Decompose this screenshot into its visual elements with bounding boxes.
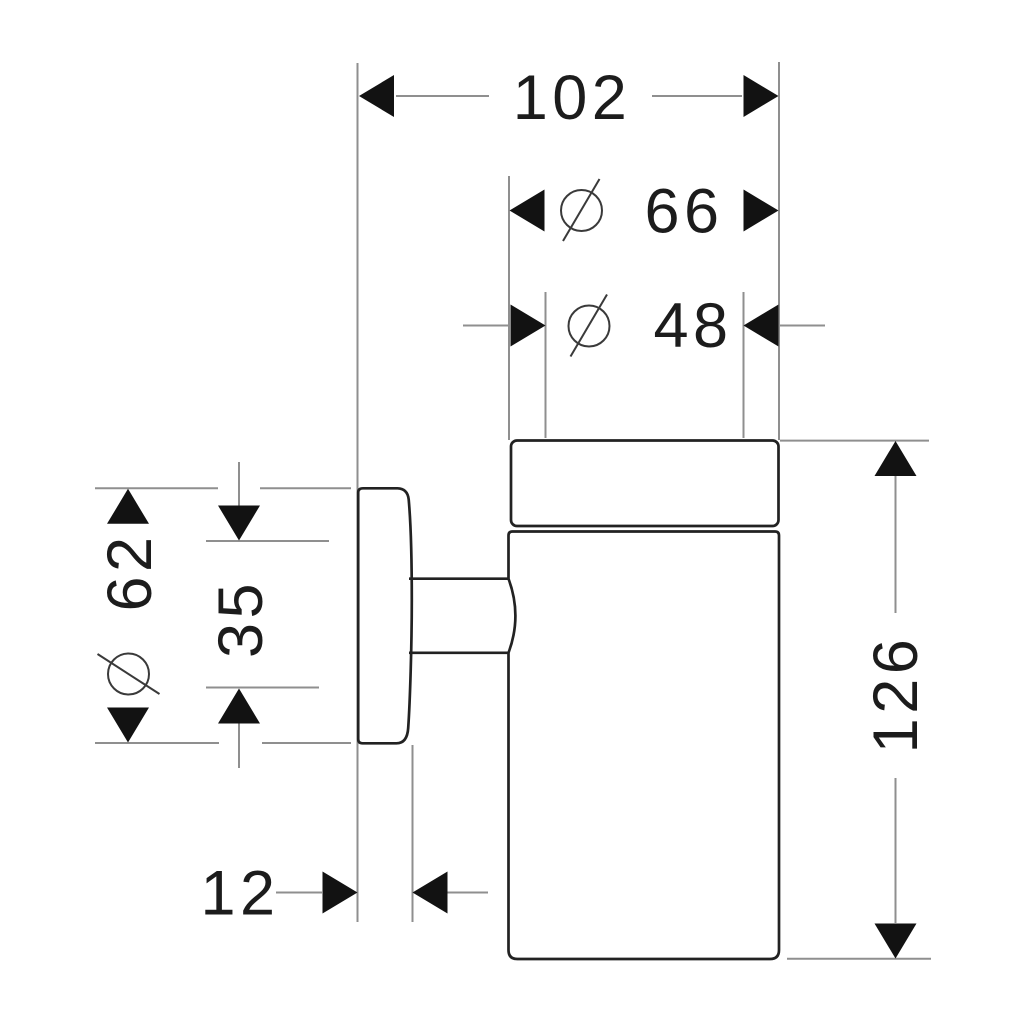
wire left extension line of 48 (545, 292, 547, 438)
svg-text:12: 12 (200, 859, 279, 929)
wire 35 dimension line upper segment (238, 462, 240, 508)
arrow 66 right (744, 190, 779, 232)
diameter symbol for 66 (561, 179, 602, 241)
wire right extension line of 48 (743, 292, 745, 438)
diameter symbol for 48 (569, 295, 610, 357)
arrow 48 right (points left) (744, 305, 779, 347)
part tumbler ring (top rim) (511, 441, 779, 527)
arrow 62 top (points up) (107, 489, 149, 524)
arrow 66 left (510, 190, 545, 232)
svg-text:48: 48 (653, 291, 732, 361)
svg-text:66: 66 (644, 177, 723, 247)
wire 126 dimension line lower segment (895, 778, 897, 923)
arrow 35 bottom (points up) (218, 689, 260, 724)
wire 12 dimension tail left (276, 892, 322, 894)
wire 62 top extension line left part (95, 487, 218, 489)
wire plate front extension line (right of 12) (412, 745, 414, 922)
wire 62 top extension line right part (260, 487, 351, 489)
svg-text:62: 62 (95, 532, 165, 611)
wire left extension line of 66 (508, 176, 510, 440)
part holder arm bottom edge (409, 651, 509, 654)
arrow 126 bottom (points down) (875, 924, 917, 959)
arrow 62 bottom (points down) (107, 708, 149, 743)
wire 62 bottom extension line right part (262, 742, 351, 744)
wire 126 dimension line upper segment (895, 476, 897, 613)
arrow 102 right (744, 75, 779, 117)
part holder arm top edge (409, 577, 509, 580)
wire 126 top extension line (780, 440, 929, 442)
wire 12 dimension tail right (447, 892, 488, 894)
arrow 126 top (points up) (875, 441, 917, 476)
arrow 12 right (points left) (413, 872, 448, 914)
diameter symbol for 62 (rotated) (98, 654, 160, 695)
arrow 12 left (points right) (323, 872, 358, 914)
wire 62 bottom extension line left part (95, 742, 219, 744)
wire 48 dimension tail left (463, 325, 510, 327)
arrow 48 left (points right) (511, 305, 546, 347)
wire right extension line (right of 102/66) (778, 62, 780, 440)
wire 102 dimension line left segment (396, 95, 489, 97)
wire 126 bottom extension line (787, 958, 931, 960)
wire 35 bottom extension line (206, 687, 319, 689)
wire wall extension line (left of 102, wall surface) (357, 63, 359, 922)
arrow 35 top (points down) (218, 506, 260, 541)
svg-text:126: 126 (861, 635, 931, 754)
wire 35 top extension line (206, 540, 329, 542)
part wall plate (escutcheon) (358, 488, 412, 743)
part tumbler body (cup) (509, 532, 780, 960)
svg-text:102: 102 (513, 63, 632, 133)
wire 48 dimension tail right (779, 325, 825, 327)
svg-text:35: 35 (206, 579, 276, 658)
wire 35 dimension line lower segment (238, 722, 240, 768)
arrow 102 left (359, 75, 394, 117)
wire 102 dimension line right segment (652, 95, 742, 97)
